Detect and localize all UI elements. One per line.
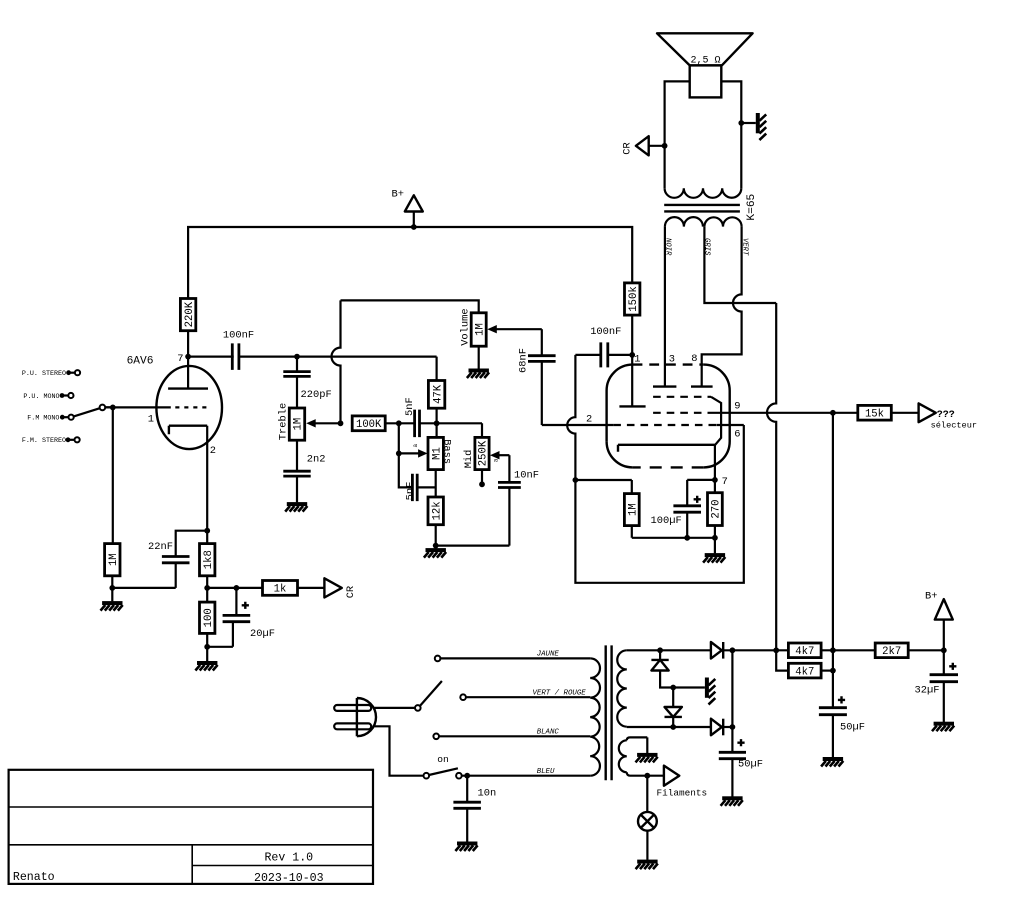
- svg-text:B+: B+: [392, 189, 404, 201]
- svg-text:12k: 12k: [431, 501, 443, 520]
- svg-text:Volume: Volume: [460, 308, 472, 345]
- svg-text:Treble: Treble: [278, 403, 290, 440]
- svg-text:6: 6: [734, 428, 740, 440]
- svg-text:P.U. STEREO: P.U. STEREO: [22, 370, 66, 378]
- svg-text:100: 100: [203, 608, 215, 627]
- svg-text:7: 7: [722, 476, 728, 488]
- svg-text:GRIS: GRIS: [703, 238, 711, 256]
- svg-text:Mid: Mid: [463, 450, 475, 469]
- svg-text:JAUNE: JAUNE: [537, 650, 560, 658]
- svg-text:100K: 100K: [356, 419, 382, 431]
- svg-text:50µF: 50µF: [738, 758, 763, 770]
- svg-text:5nF: 5nF: [405, 482, 417, 501]
- svg-text:CR: CR: [345, 586, 357, 598]
- svg-text:Bass: Bass: [441, 439, 453, 464]
- svg-text:CR: CR: [622, 142, 634, 154]
- svg-text:10nF: 10nF: [514, 470, 539, 482]
- svg-text:BLEU: BLEU: [537, 768, 555, 776]
- svg-text:100nF: 100nF: [223, 329, 254, 341]
- svg-text:9: 9: [734, 401, 740, 413]
- svg-text:32µF: 32µF: [915, 685, 940, 697]
- svg-text:2: 2: [586, 413, 592, 425]
- svg-text:1: 1: [634, 353, 640, 365]
- svg-text:sélecteur: sélecteur: [931, 420, 977, 430]
- svg-text:1k: 1k: [274, 584, 287, 596]
- svg-text:20µF: 20µF: [250, 628, 275, 640]
- svg-text:250K: 250K: [478, 440, 490, 466]
- svg-text:1: 1: [148, 414, 154, 426]
- svg-text:8: 8: [691, 353, 697, 365]
- svg-text:P.U. MONO: P.U. MONO: [23, 393, 59, 401]
- svg-text:2,5 Ω: 2,5 Ω: [691, 55, 721, 66]
- svg-text:1M: 1M: [474, 323, 486, 336]
- svg-text:Filaments: Filaments: [657, 787, 708, 798]
- svg-text:220K: 220K: [184, 301, 196, 327]
- svg-text:Rev 1.0: Rev 1.0: [264, 851, 313, 864]
- svg-text:1M: 1M: [293, 418, 305, 431]
- svg-text:15k: 15k: [865, 409, 884, 421]
- svg-text:NOIR: NOIR: [664, 238, 672, 256]
- svg-text:Renato: Renato: [13, 871, 55, 884]
- svg-text:F.M MONO: F.M MONO: [27, 415, 59, 423]
- svg-text:4k7: 4k7: [795, 646, 814, 658]
- svg-text:VERT: VERT: [740, 238, 748, 256]
- svg-text:K=65: K=65: [746, 194, 758, 221]
- svg-text:2k7: 2k7: [882, 646, 901, 658]
- svg-text:220pF: 220pF: [301, 389, 332, 401]
- svg-text:VERT / ROUGE: VERT / ROUGE: [533, 690, 587, 698]
- svg-text:2: 2: [210, 445, 216, 457]
- svg-text:100µF: 100µF: [651, 515, 682, 527]
- svg-text:on: on: [437, 754, 449, 765]
- svg-text:1M: 1M: [108, 553, 120, 566]
- svg-text:4k7: 4k7: [795, 666, 814, 678]
- svg-text:2023-10-03: 2023-10-03: [254, 872, 324, 885]
- svg-text:1M: 1M: [628, 503, 640, 516]
- svg-text:BLANC: BLANC: [537, 729, 560, 737]
- svg-text:6AV6: 6AV6: [127, 356, 154, 368]
- svg-text:a: a: [412, 444, 419, 448]
- svg-text:1k8: 1k8: [203, 550, 215, 569]
- svg-text:7: 7: [177, 353, 183, 365]
- svg-text:10n: 10n: [478, 787, 497, 799]
- svg-text:B+: B+: [925, 590, 937, 602]
- svg-text:150k: 150k: [628, 286, 640, 311]
- svg-text:270: 270: [711, 500, 723, 519]
- svg-text:50µF: 50µF: [840, 721, 865, 733]
- svg-text:F.M. STEREO: F.M. STEREO: [22, 437, 66, 445]
- svg-text:47K: 47K: [432, 384, 444, 404]
- svg-text:68nF: 68nF: [518, 348, 530, 373]
- svg-text:22nF: 22nF: [148, 541, 173, 553]
- svg-text:2n2: 2n2: [307, 453, 326, 465]
- svg-text:a: a: [493, 458, 500, 462]
- svg-text:100nF: 100nF: [590, 326, 621, 338]
- svg-text:5nF: 5nF: [404, 397, 416, 416]
- svg-text:3: 3: [669, 354, 675, 366]
